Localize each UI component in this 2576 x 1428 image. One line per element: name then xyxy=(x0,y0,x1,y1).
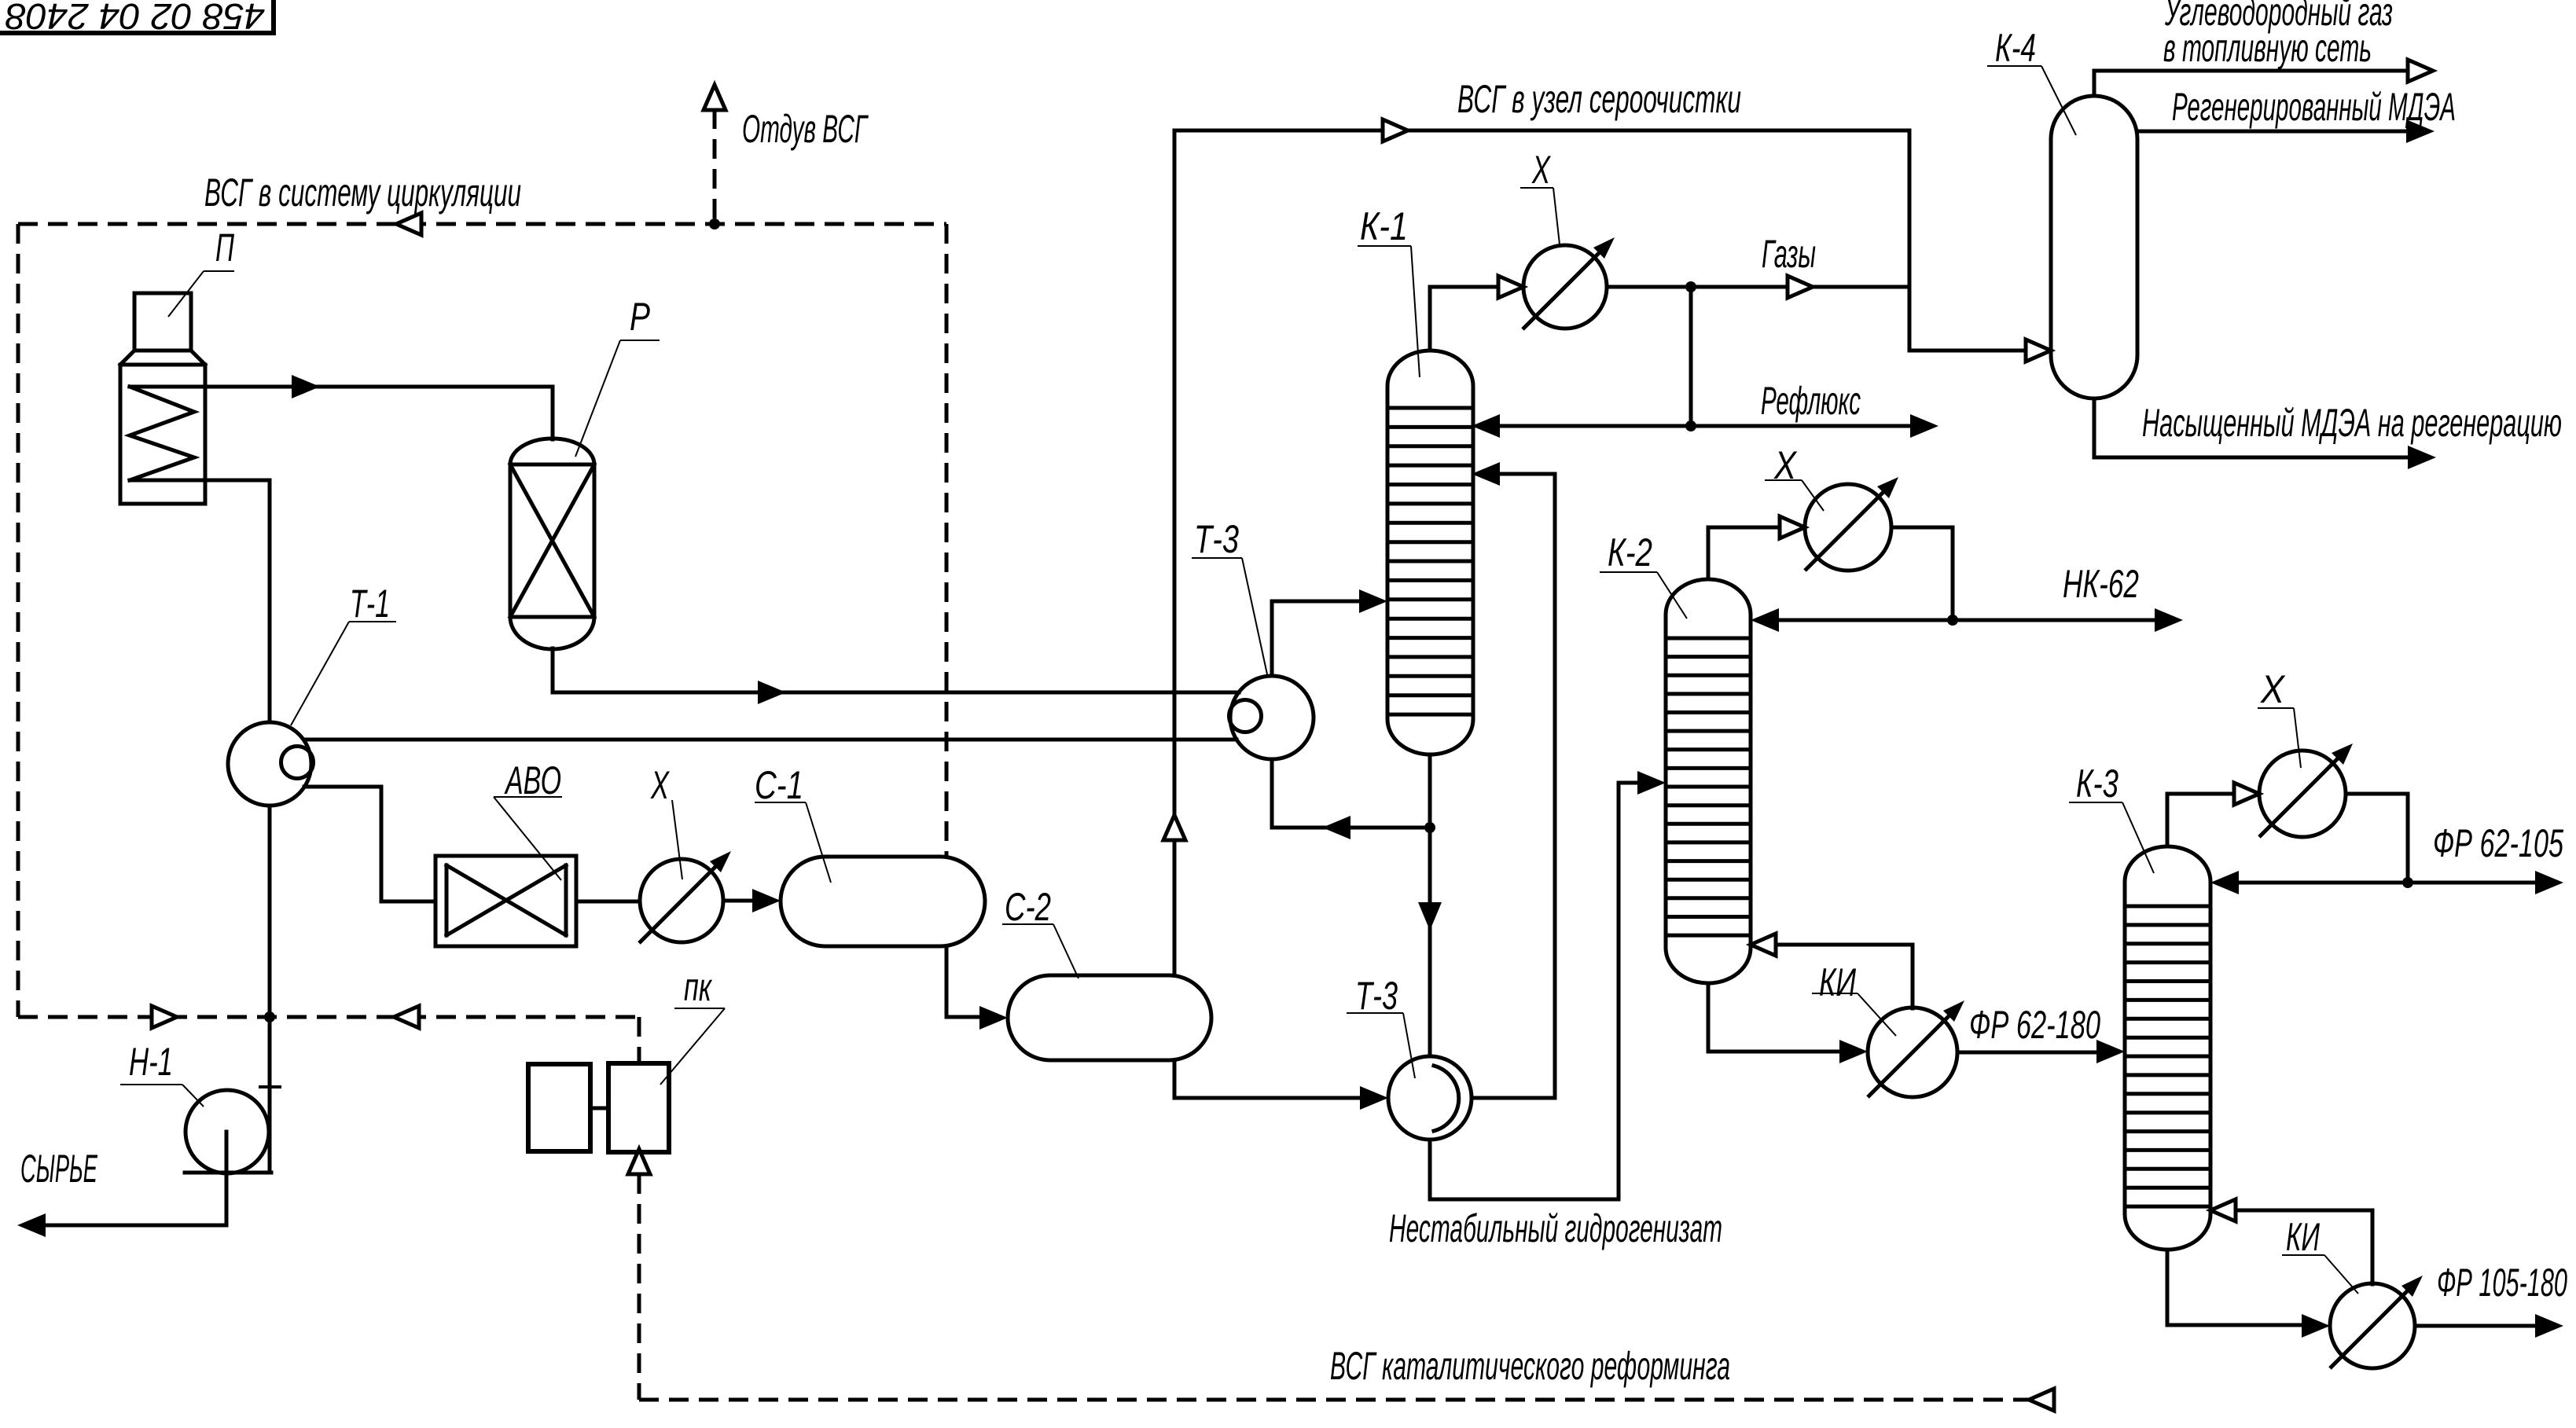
svg-text:пк: пк xyxy=(684,965,713,1009)
svg-text:К-2: К-2 xyxy=(1608,530,1652,575)
svg-text:Газы: Газы xyxy=(1762,232,1816,276)
svg-text:С-1: С-1 xyxy=(755,763,803,807)
svg-text:Насыщенный МДЭА на регенерацию: Насыщенный МДЭА на регенерацию xyxy=(2142,401,2562,445)
svg-text:Т-1: Т-1 xyxy=(350,582,390,626)
svg-text:К-3: К-3 xyxy=(2076,762,2118,806)
svg-text:Х: Х xyxy=(2260,667,2285,711)
svg-text:в топливную сеть: в топливную сеть xyxy=(2163,26,2372,70)
svg-text:Нестабильный гидрогенизат: Нестабильный гидрогенизат xyxy=(1389,1206,1722,1250)
svg-text:Отдув ВСГ: Отдув ВСГ xyxy=(742,107,869,151)
svg-text:К-4: К-4 xyxy=(1995,26,2036,70)
svg-text:Х: Х xyxy=(1773,443,1797,487)
svg-text:П: П xyxy=(215,226,235,270)
svg-text:Х: Х xyxy=(1531,148,1551,192)
svg-text:ФР 62-105: ФР 62-105 xyxy=(2433,821,2563,865)
svg-text:Рефлюкс: Рефлюкс xyxy=(1761,379,1861,423)
svg-text:ВСГ каталитического реформинга: ВСГ каталитического реформинга xyxy=(1330,1344,1730,1388)
svg-text:Т-3: Т-3 xyxy=(1194,517,1239,561)
svg-text:К-1: К-1 xyxy=(1360,204,1408,248)
svg-text:ВСГ в узел сероочистки: ВСГ в узел сероочистки xyxy=(1457,77,1741,121)
svg-text:С-2: С-2 xyxy=(1005,885,1051,929)
svg-text:Х: Х xyxy=(650,763,670,807)
svg-text:ФР 62-180: ФР 62-180 xyxy=(1969,1003,2100,1047)
svg-text:АВО: АВО xyxy=(504,758,561,802)
svg-text:КИ: КИ xyxy=(1819,960,1856,1004)
svg-text:НК-62: НК-62 xyxy=(2063,562,2139,606)
svg-text:Р: Р xyxy=(630,295,650,339)
svg-text:ВСГ в систему циркуляции: ВСГ в систему циркуляции xyxy=(204,171,521,215)
svg-text:ФР 105-180: ФР 105-180 xyxy=(2437,1261,2567,1305)
svg-text:СЫРЬЕ: СЫРЬЕ xyxy=(20,1147,97,1191)
svg-text:Н-1: Н-1 xyxy=(129,1040,173,1084)
svg-text:Регенерированный МДЭА: Регенерированный МДЭА xyxy=(2172,85,2456,129)
svg-text:Т-3: Т-3 xyxy=(1355,974,1398,1018)
svg-text:458 02 04 2408: 458 02 04 2408 xyxy=(6,0,265,37)
svg-text:КИ: КИ xyxy=(2286,1215,2320,1259)
